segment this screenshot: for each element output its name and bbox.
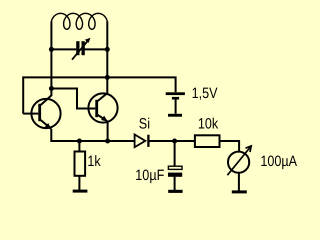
transistor T2 base bar xyxy=(95,100,98,117)
wire T1 base xyxy=(23,113,38,115)
transistor T1 circle xyxy=(31,99,60,128)
wire meter bottom xyxy=(238,172,240,190)
wire left tank rail xyxy=(50,21,52,96)
meter M1 circle xyxy=(228,152,249,173)
wire cap row left xyxy=(51,48,76,50)
wire battery minus xyxy=(175,99,177,113)
ground battery xyxy=(168,114,182,117)
inductor L1 xyxy=(51,13,107,29)
transistor T2 collector xyxy=(98,93,108,101)
transistor T2 emitter arrowhead xyxy=(101,116,108,122)
wire top supply xyxy=(23,77,175,113)
wire 1k top xyxy=(78,141,80,152)
svg-text:10k: 10k xyxy=(198,115,219,132)
ground cap C2 xyxy=(168,190,182,193)
svg-text:100µA: 100µA xyxy=(260,153,297,170)
diode D1 triangle xyxy=(135,135,146,148)
node D feedback xyxy=(49,86,54,91)
wire 1k bottom xyxy=(78,176,80,190)
varcap C1 arrow xyxy=(72,38,91,60)
meter M1 arrow xyxy=(227,146,251,175)
transistor T1 emitter arrowhead xyxy=(45,123,52,129)
node E 1k tap xyxy=(77,139,82,144)
battery B1 minus plate xyxy=(172,97,179,100)
wire T2 emitter xyxy=(107,122,109,141)
transistor T1 collector xyxy=(41,96,52,106)
wire right tank rail xyxy=(106,21,108,94)
varcap C1 left plate xyxy=(76,41,79,55)
meter M1 arrowhead xyxy=(246,146,252,152)
diode D1 cathode bar xyxy=(147,135,149,147)
transistor T1 base bar xyxy=(38,104,41,121)
wire cap row right xyxy=(84,48,107,50)
node A tank left xyxy=(49,47,54,52)
battery B1 plus plate xyxy=(166,92,185,95)
wire cap C2 top xyxy=(174,141,176,166)
resistor R2 10k body xyxy=(195,135,220,147)
wire diode to resistor xyxy=(149,140,195,142)
node F emitter T2 xyxy=(105,139,110,144)
capacitor C2 minus plate xyxy=(168,173,182,177)
svg-text:1k: 1k xyxy=(87,153,101,170)
wire T2 base xyxy=(51,89,95,109)
transistor T1 emitter xyxy=(41,120,52,129)
ground 1k xyxy=(73,190,88,193)
ground meter xyxy=(232,190,247,193)
node C supply right xyxy=(105,75,110,80)
wire cap C2 bottom xyxy=(174,176,176,190)
varcap C1 right plate xyxy=(82,41,85,55)
wire bottom rail xyxy=(51,129,134,141)
capacitor C2 plus plate xyxy=(168,166,182,169)
node B tank right xyxy=(105,47,110,52)
resistor R1 1k body xyxy=(75,152,86,176)
svg-text:Si: Si xyxy=(139,116,150,133)
node G detector xyxy=(172,139,177,144)
transistor T2 circle xyxy=(88,93,117,122)
svg-text:10µF: 10µF xyxy=(135,167,164,184)
svg-text:1,5V: 1,5V xyxy=(192,85,218,102)
wire resistor to meter xyxy=(220,141,240,152)
transistor T2 emitter xyxy=(98,115,108,122)
